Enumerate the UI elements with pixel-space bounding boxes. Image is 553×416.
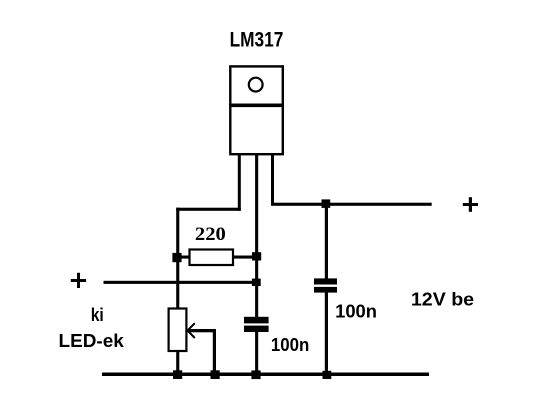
wire resistor right lead bbox=[233, 256, 257, 259]
svg-text:100n: 100n bbox=[335, 301, 377, 322]
junction ADJ node / resistor left bbox=[172, 253, 181, 262]
wire potentiometer bottom lead bbox=[176, 351, 179, 373]
pin 2 OUT lead bbox=[255, 154, 258, 318]
junction ground / C1 bbox=[251, 370, 260, 379]
node + input label bbox=[463, 197, 478, 212]
wire ground rail bbox=[102, 373, 429, 377]
wire resistor left lead bbox=[177, 256, 190, 259]
capacitor C1 100n plates bbox=[244, 317, 269, 332]
svg-text:100n: 100n bbox=[271, 334, 309, 355]
capacitor C2 100n plates bbox=[314, 278, 337, 292]
wire ADJ horizontal segment bbox=[176, 208, 241, 211]
junction OUT node / resistor right bbox=[252, 252, 261, 260]
node + output label bbox=[71, 273, 86, 288]
regulator U1 TO-220 package body bbox=[229, 66, 284, 154]
junction ground / wiper bbox=[211, 370, 220, 379]
resistor R1 220 ohm body bbox=[190, 250, 234, 266]
junction ground / C2 bbox=[323, 371, 332, 379]
wire wiper horizontal segment bbox=[187, 329, 216, 332]
pin 3 IN lead bbox=[271, 154, 274, 206]
pin 1 ADJ lead bbox=[238, 154, 241, 211]
svg-text:220: 220 bbox=[195, 224, 226, 245]
potentiometer wiper arrow bbox=[188, 323, 195, 338]
svg-text:12V be: 12V be bbox=[411, 288, 474, 309]
wire wiper vertical segment to ground bbox=[213, 329, 216, 375]
wire IN horizontal 12V input rail bbox=[271, 203, 432, 206]
junction OUT node / output rail bbox=[252, 279, 261, 286]
svg-text:LED-ek: LED-ek bbox=[59, 330, 125, 351]
svg-text:LM317: LM317 bbox=[230, 29, 284, 52]
wire C2 bottom lead bbox=[325, 292, 328, 374]
wire output rail to LEDs bbox=[104, 281, 257, 284]
junction ground / potentiometer bottom bbox=[173, 370, 182, 379]
junction input rail / C2 bbox=[322, 199, 331, 208]
potentiometer P1 body bbox=[169, 309, 187, 352]
svg-text:ki: ki bbox=[91, 304, 104, 325]
wire ADJ vertical segment to potentiometer bbox=[176, 208, 179, 309]
wire C1 bottom lead bbox=[255, 332, 258, 374]
wire C2 top lead bbox=[325, 204, 328, 279]
